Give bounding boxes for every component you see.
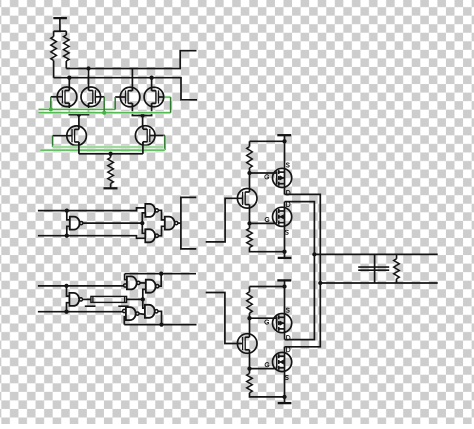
node U1 out (140, 221, 144, 225)
wire rail A (285, 194, 321, 346)
node green2 (102, 111, 106, 115)
label S (286, 308, 289, 312)
wire (67, 303, 70, 312)
nand gate U4 (165, 217, 178, 230)
wire bias2 gate (206, 293, 243, 344)
wire nmos source (284, 227, 286, 252)
node latch top (159, 272, 163, 276)
wire (396, 254, 398, 258)
wire (374, 254, 376, 283)
node in2 tap (65, 234, 69, 238)
wire T2 gate (95, 96, 104, 98)
wire output bracket (181, 197, 196, 249)
wire input3 (38, 285, 124, 287)
wire nmos source (284, 372, 286, 397)
wire U3 out (158, 226, 164, 236)
wire green bus A (39, 108, 116, 111)
resistor Rg2 (247, 228, 253, 247)
nand gate U6 (124, 276, 141, 289)
nand gate U9 (145, 305, 158, 318)
power supply bar VDD1 (53, 17, 67, 19)
wire U2 out (158, 210, 164, 220)
label D (287, 347, 290, 352)
wire (124, 317, 126, 325)
node A (77, 112, 81, 116)
wire stem (284, 280, 286, 313)
ground bar VSS3 (278, 402, 292, 404)
wire (125, 274, 127, 280)
wire snubber top rail (314, 253, 437, 255)
node gate2 (247, 221, 251, 225)
wire green bus B2 (40, 149, 165, 152)
node gate1 (247, 171, 251, 175)
label D (287, 202, 290, 207)
transistor T2 (81, 87, 101, 107)
wire green T3 vertical (114, 97, 116, 109)
wire (250, 286, 285, 288)
ground bar VSS2 (278, 257, 292, 259)
transistor T4 (144, 87, 164, 107)
node gate2 (247, 366, 251, 370)
nand gate U3 (145, 229, 158, 242)
wire snubber bottom rail (320, 282, 437, 284)
node B (140, 113, 144, 117)
node T1 drain (67, 76, 71, 80)
wire green T6 vertical (163, 136, 166, 151)
wire (131, 69, 133, 91)
wire (284, 397, 286, 403)
wire (142, 223, 145, 233)
capacitor C1 (358, 267, 389, 270)
wire (249, 353, 251, 368)
transistor Mn (273, 207, 292, 227)
transistor Mn (273, 352, 292, 372)
wire (250, 140, 285, 142)
wire tail (79, 153, 143, 155)
wire (142, 142, 144, 154)
wire (78, 142, 80, 154)
node in4 tap (64, 310, 68, 314)
wire input1 (38, 208, 145, 211)
wire U1 out (83, 222, 142, 224)
wire T6 gate (150, 135, 165, 137)
wire input2 (38, 236, 145, 239)
wire (110, 154, 112, 158)
wire (68, 78, 70, 91)
wire latch bottom (124, 324, 196, 326)
node tail (108, 152, 112, 156)
wire (54, 30, 67, 32)
resistor R2 right leads (65, 31, 67, 68)
resistor R4 (394, 259, 400, 279)
nand gate U8 (123, 307, 140, 320)
wire U7 out (159, 274, 161, 287)
label G (265, 175, 269, 179)
wire green bus B (39, 111, 171, 114)
power bar VDD3 (277, 279, 291, 281)
wire (249, 141, 251, 146)
wire (249, 369, 251, 374)
wire U5 out (83, 298, 91, 300)
label D (287, 190, 290, 195)
wire upper drain bus (66, 51, 196, 69)
delay line DL1 gnd ticks (85, 305, 129, 307)
wire (142, 213, 145, 223)
transistor T5 (67, 126, 87, 146)
wire (284, 252, 286, 258)
wire (67, 211, 70, 220)
label G (265, 320, 269, 324)
node in1 tap (65, 208, 69, 212)
nand gate U1 (70, 217, 83, 230)
wire T5 gate (53, 135, 73, 137)
nand gate U2 (145, 204, 158, 217)
label G (265, 217, 269, 221)
wire nmos gate (250, 222, 277, 224)
label G (265, 363, 269, 367)
wire green net1 vertical (50, 97, 52, 110)
wire stem (284, 135, 286, 168)
wire riser up (143, 289, 146, 299)
wire (88, 69, 90, 91)
wire green net2 vertical (103, 97, 105, 113)
power bar VDD2 (277, 134, 291, 136)
node source (282, 250, 286, 254)
wire green bus A2 (53, 146, 164, 149)
wire rail B (285, 202, 315, 340)
node stem tap (282, 284, 286, 288)
node in3 tap (64, 284, 68, 288)
wire (59, 18, 61, 31)
wire (67, 226, 70, 235)
wire (151, 78, 153, 91)
wire (250, 248, 285, 252)
wire DL1 out (127, 298, 143, 300)
wire (78, 115, 80, 126)
nand gate U5 (69, 293, 82, 306)
transistor bias (237, 333, 257, 353)
wire (249, 287, 251, 292)
node T2 drain (86, 66, 90, 70)
wire bias1 gate (206, 198, 243, 242)
wire nmos gate (250, 368, 277, 370)
wire nmos drain (284, 347, 286, 352)
resistor Rg1 (247, 147, 253, 168)
transistor Mp (273, 313, 292, 333)
transistor Mp (273, 168, 292, 188)
node T4 drain (149, 76, 153, 80)
wire riser down (143, 299, 145, 308)
ground bar (104, 187, 118, 189)
node latch bottom (159, 322, 163, 326)
wire (250, 393, 285, 397)
wire U9 out (158, 311, 161, 324)
wire (67, 286, 70, 296)
transistor T6 (135, 125, 155, 145)
wire pmos drain (284, 188, 286, 195)
wire T3 gate (115, 96, 126, 98)
wire (249, 313, 251, 334)
wire green T5 vertical (52, 136, 54, 147)
resistor Rg2 (247, 374, 253, 393)
label S (285, 230, 288, 234)
wire (69, 103, 88, 115)
node rail A tap (318, 281, 322, 285)
node DL1 out (141, 297, 145, 301)
wire (249, 168, 251, 189)
transistor bias (237, 188, 257, 208)
transistor T1 (57, 87, 77, 107)
label D (287, 336, 290, 341)
resistor R1 left leads (53, 31, 55, 77)
wire latch top (125, 273, 196, 275)
wire T1 gate (51, 96, 63, 98)
wire pmos gate (250, 317, 277, 319)
wire green T4 gate (165, 97, 171, 113)
wire lower drain bus (54, 78, 197, 100)
resistor R1 (51, 37, 57, 61)
nand gate U7 (146, 280, 159, 293)
wire (249, 223, 251, 228)
wire U8 out (139, 313, 145, 316)
wire (142, 116, 144, 126)
resistor Rg1 (247, 292, 253, 313)
transistor T3 (120, 87, 140, 107)
resistor R2 (64, 35, 70, 61)
wire pmos drain (284, 333, 286, 340)
wire T4 gate (158, 96, 165, 98)
wire U6 out (140, 282, 146, 284)
wire pmos gate (250, 172, 277, 174)
wire U4 out (178, 222, 181, 224)
node stem tap (282, 139, 286, 143)
delay line DL1 box (91, 296, 127, 302)
delay line DL1 end bars (93, 296, 125, 302)
node source (282, 395, 286, 399)
wire (249, 208, 251, 223)
wire (110, 184, 112, 189)
wire nmos drain (284, 202, 286, 207)
label S (285, 375, 288, 379)
wire input4 (38, 311, 123, 313)
wire (396, 279, 398, 283)
resistor R3 tail (108, 158, 114, 184)
label S (286, 163, 289, 167)
node rail B tap (312, 252, 316, 256)
wire (132, 103, 151, 115)
node gate1 (247, 316, 251, 320)
node green1 (49, 107, 53, 111)
